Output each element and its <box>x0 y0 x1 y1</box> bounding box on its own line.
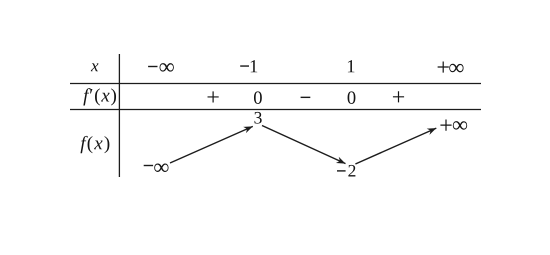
table header rule (top horizontal line) <box>70 83 481 85</box>
table middle rule (second horizontal line) <box>70 109 481 111</box>
local minimum value -2: digit 2 <box>348 165 355 177</box>
header value plus-infinity: infinity symbol <box>449 64 463 73</box>
local maximum value 3 <box>254 112 261 124</box>
limit value minus-infinity (bottom left): minus sign <box>144 165 153 166</box>
table left vertical rule <box>118 54 120 177</box>
sign plus (second) <box>393 91 404 102</box>
header value 1 <box>348 60 355 72</box>
row label f(x) <box>80 136 109 153</box>
variation arrow rising from -2 to plus-infinity <box>355 128 436 164</box>
header value minus-infinity: infinity symbol <box>160 63 174 72</box>
header value -1: minus sign <box>240 65 249 66</box>
sign zero (second) <box>348 91 356 103</box>
variation arrow falling from 3 to -2 <box>262 126 346 164</box>
limit value minus-infinity (bottom left): infinity symbol <box>154 163 168 172</box>
variation arrow rising from minus-infinity to 3 <box>170 126 253 163</box>
sign minus <box>301 97 311 98</box>
sign zero (first) <box>254 91 262 103</box>
limit value plus-infinity (top right): infinity symbol <box>453 121 467 130</box>
limit value plus-infinity (top right): plus sign <box>440 120 451 131</box>
header value minus-infinity: minus sign <box>148 66 157 67</box>
header variable label x <box>91 63 99 71</box>
header value -1: digit 1 <box>251 60 258 72</box>
sign plus (first) <box>208 91 219 102</box>
header value plus-infinity: plus sign <box>438 61 449 72</box>
local minimum value -2: minus sign <box>337 170 346 171</box>
row label f'(x) <box>83 88 116 105</box>
